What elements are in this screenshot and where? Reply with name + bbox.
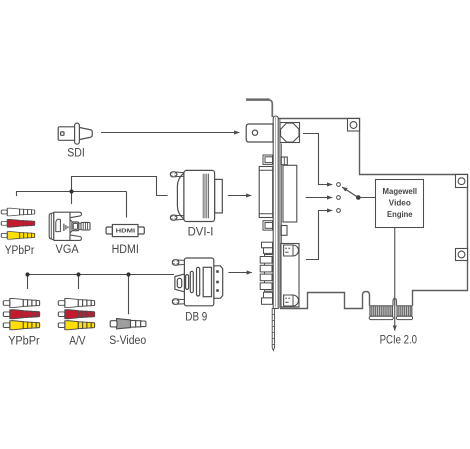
svg-text:PCIe 2.0: PCIe 2.0 <box>380 335 417 347</box>
DB9 receptacle ribs on bracket <box>260 255 273 292</box>
wire bus to DVI-I adapter <box>72 177 168 196</box>
svg-text:A/V: A/V <box>69 335 86 347</box>
wire DVI port to switch pole 2 <box>306 197 333 199</box>
yellow plug <box>3 321 39 330</box>
yellow plug <box>58 321 94 330</box>
DVI port bottom nut on bracket <box>263 221 273 230</box>
bracket bottom tail <box>272 309 274 351</box>
wire BNC to switch pole 1 <box>303 134 332 185</box>
white plug <box>58 298 94 307</box>
HDMI connector icon <box>106 225 144 237</box>
screw hole top-right of PCB <box>456 175 468 188</box>
DVI connector body on PCB <box>280 119 297 308</box>
selector switch poles <box>337 183 341 213</box>
junction dot upper bus <box>69 189 73 193</box>
svg-text:S-Video: S-Video <box>109 335 146 347</box>
PCB outline bottom-left edge <box>280 292 370 309</box>
switch wiper <box>342 187 360 200</box>
wire DB9 port to switch pole 3 <box>306 211 332 260</box>
wire DB 9 to card port <box>228 272 251 274</box>
DB 9 adapter icon <box>172 258 222 306</box>
PCIe key notch between finger groups <box>393 299 397 306</box>
DB9 standoff top on bracket <box>262 242 273 253</box>
red plug <box>58 310 94 319</box>
wire bus upper analog group <box>17 192 127 197</box>
PCB outline top edge <box>278 119 467 306</box>
DVI receptacle on bracket <box>259 167 273 218</box>
BNC mount tab on bracket <box>246 124 273 142</box>
S-Video connector icon <box>110 319 146 329</box>
DVI-I adapter icon <box>170 170 222 221</box>
wire HDMI riser <box>126 192 128 218</box>
wire Magewell box to PCIe edge <box>394 228 396 331</box>
wire SDI to card bracket <box>101 132 239 134</box>
VGA connector icon <box>49 212 90 240</box>
wire VGA riser stub <box>71 192 73 205</box>
PCIe gold fingers group 2 <box>396 306 412 320</box>
Magewell Video Engine box <box>376 180 424 228</box>
junction dot A/V <box>76 272 80 276</box>
screw hole top-left of PCB <box>348 119 360 132</box>
junction dot S-Video <box>126 272 130 276</box>
svg-text:Engine: Engine <box>387 209 413 219</box>
PCIe gold fingers group 1 <box>369 306 393 320</box>
red plug <box>1 219 34 227</box>
svg-text:Magewell: Magewell <box>383 186 418 196</box>
svg-text:Video: Video <box>389 197 411 207</box>
white plug <box>1 208 34 216</box>
wire riser A/V <box>78 275 80 290</box>
wire DVI-I to card DVI port <box>228 195 252 197</box>
wire bus lower analog group <box>28 274 175 276</box>
white plug <box>3 298 39 307</box>
bracket tab (top bend) <box>246 98 270 101</box>
svg-text:SDI: SDI <box>67 147 85 159</box>
svg-text:YPbPr: YPbPr <box>5 245 35 257</box>
A/V plugs <box>58 298 94 329</box>
DB9 standoff bottom on bracket <box>262 292 273 304</box>
svg-text:YPbPr: YPbPr <box>8 335 40 347</box>
SDI connector icon <box>58 123 92 144</box>
YPbPr plugs (bottom group) <box>3 298 39 329</box>
yellow plug <box>1 232 34 240</box>
BNC jack body on PCB <box>280 123 300 143</box>
YPbPr component plugs (top group) <box>1 208 34 239</box>
svg-text:DB 9: DB 9 <box>185 311 207 323</box>
svg-text:HDMI: HDMI <box>112 244 139 256</box>
svg-text:DVI-I: DVI-I <box>188 227 214 239</box>
wire wiper to Magewell box <box>358 197 376 199</box>
wire riser YPbPr lower <box>27 275 29 290</box>
bracket vertical strip <box>273 116 278 309</box>
VGA wave marks <box>64 224 68 231</box>
wire riser S-Video <box>128 275 130 315</box>
DB9 connector body on PCB <box>281 226 299 307</box>
junction dot YPbPr lower <box>25 272 29 276</box>
svg-text:VGA: VGA <box>56 244 80 256</box>
screw hole right-middle of PCB <box>456 249 468 261</box>
DVI port top nut on bracket <box>263 155 273 164</box>
svg-text:HDMI: HDMI <box>116 229 136 235</box>
red plug <box>3 310 39 319</box>
